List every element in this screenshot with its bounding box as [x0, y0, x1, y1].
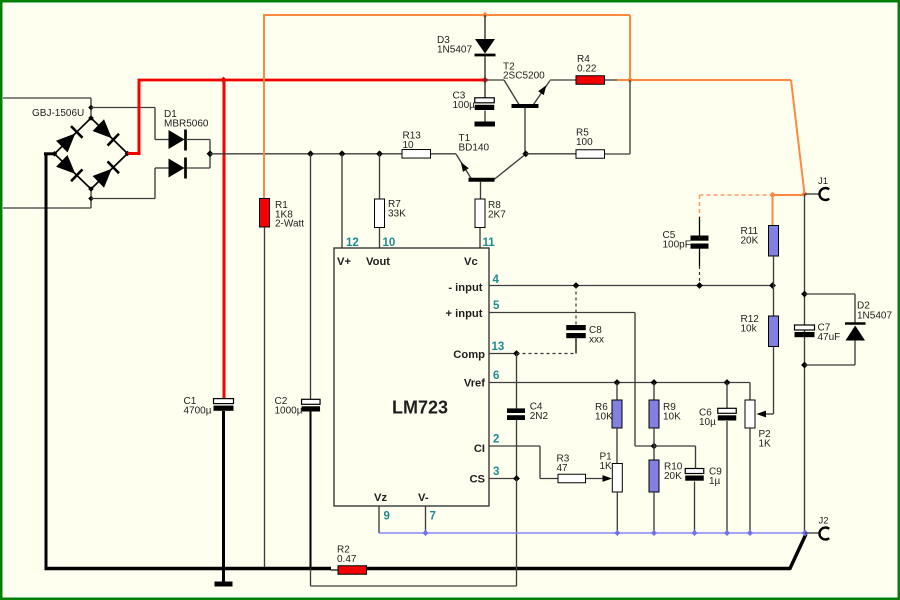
potentiometer P1 1K: [612, 464, 622, 493]
svg-text:Vout: Vout: [366, 256, 390, 268]
wire red positive rail from bridge: [128, 152, 140, 155]
potentiometer P2 1K: [749, 383, 751, 401]
wire thick diagonal to J2: [790, 534, 807, 570]
svg-text:33K: 33K: [388, 208, 406, 219]
wire R4 to orange output: [605, 79, 619, 81]
resistor R2 0.47: [338, 566, 367, 575]
node bridge left vertex: [52, 151, 58, 157]
node R11/R12 junction: [769, 282, 776, 289]
svg-text:2SC5200: 2SC5200: [503, 71, 545, 82]
capacitor C7 47uF: [795, 325, 815, 330]
svg-text:+ input: + input: [446, 308, 483, 320]
svg-text:13: 13: [492, 341, 505, 353]
IC U1 LM723 body: [334, 248, 489, 506]
connector J1: [805, 193, 820, 195]
svg-text:BD140: BD140: [459, 142, 490, 153]
svg-text:20K: 20K: [664, 471, 682, 482]
wire Comp down to C4: [516, 354, 518, 409]
node blue P2: [747, 530, 753, 536]
node CS junction: [513, 475, 520, 482]
wire to D1 lower anode: [91, 198, 155, 200]
svg-text:Vz: Vz: [374, 492, 387, 504]
svg-text:2K7: 2K7: [488, 209, 506, 220]
capacitor C8 xxx: [575, 286, 577, 326]
wire J1 column down to J2: [804, 194, 806, 533]
wire R12 to P2 wiper: [773, 347, 775, 415]
node blue C9: [692, 530, 698, 536]
node R9/R10 junction: [651, 443, 658, 450]
svg-text:0.47: 0.47: [337, 554, 357, 565]
node blue C6: [724, 530, 730, 536]
svg-text:11: 11: [483, 237, 496, 249]
svg-text:10: 10: [383, 237, 396, 249]
transistor T1 BD140: [456, 154, 472, 179]
wire orange loop top: [263, 14, 265, 199]
svg-text:xxx: xxx: [589, 334, 604, 345]
svg-text:1N5407: 1N5407: [857, 311, 892, 322]
svg-text:Vref: Vref: [464, 377, 485, 389]
wire R6 to P1: [616, 428, 618, 464]
capacitor C4 2N2: [507, 408, 525, 413]
node bridge top vertex: [88, 115, 94, 121]
svg-text:1000µ: 1000µ: [275, 405, 303, 416]
resistor R6 10K: [616, 383, 618, 401]
svg-text:9: 9: [384, 511, 390, 523]
node blue J2: [802, 530, 809, 537]
node bridge bottom vertex: [88, 186, 94, 192]
svg-text:1N5407: 1N5407: [437, 44, 472, 55]
node orange output corner: [627, 77, 633, 83]
node C2 column: [307, 150, 314, 157]
resistor R5 100: [526, 153, 576, 155]
wire pin12 stub: [341, 154, 343, 248]
node bridge AC1 branch: [88, 105, 94, 111]
wire AC input bottom-left: [3, 207, 91, 209]
svg-text:47: 47: [557, 463, 569, 474]
bridge rectifier GBJ-1506U: [55, 118, 92, 154]
svg-text:Comp: Comp: [453, 349, 485, 361]
node blue R10: [651, 530, 657, 536]
node red rail to C1: [220, 77, 227, 84]
svg-text:5: 5: [493, 300, 500, 312]
node bridge right vertex: [125, 151, 131, 157]
wire orange to J1: [630, 79, 791, 81]
resistor R3 47: [558, 474, 586, 483]
wire to C9: [654, 445, 696, 447]
capacitor C2 1000u: [302, 399, 321, 404]
wire C2 column upper: [310, 154, 312, 400]
svg-text:MBR5060: MBR5060: [164, 118, 209, 129]
svg-text:4: 4: [493, 274, 500, 286]
wire CS sense down: [516, 479, 518, 587]
svg-text:7: 7: [430, 511, 436, 523]
node orange top at D3: [482, 12, 488, 18]
svg-text:CI: CI: [474, 443, 485, 455]
svg-text:0.22: 0.22: [577, 63, 597, 74]
svg-text:V-: V-: [418, 492, 429, 504]
node pin12 column: [339, 150, 346, 157]
resistor R8 2K7: [475, 199, 485, 228]
wire pin 5 +input: [489, 312, 635, 314]
node C8 tap: [573, 282, 580, 289]
svg-text:100µ: 100µ: [453, 100, 476, 111]
resistor R11 20K: [769, 226, 779, 257]
resistor R12 10k: [773, 286, 775, 317]
node blue pin7: [423, 530, 429, 536]
svg-text:1µ: 1µ: [709, 476, 721, 487]
node D1 output: [207, 150, 214, 157]
svg-text:10K: 10K: [663, 411, 681, 422]
capacitor C1 4700u: [214, 399, 234, 404]
wire pin 9 stub: [378, 506, 380, 533]
wire R10 to V- rail: [653, 492, 655, 533]
svg-text:20K: 20K: [741, 235, 759, 246]
svg-text:12: 12: [346, 237, 359, 249]
svg-text:100pF: 100pF: [663, 239, 691, 250]
resistor R10 20K: [653, 446, 655, 460]
diode D3 1N5407: [484, 15, 486, 39]
ground C3: [475, 122, 496, 127]
node R9 top: [651, 379, 658, 386]
node T1/T2 collector junction: [522, 150, 529, 157]
capacitor C5 100pF: [699, 217, 701, 236]
svg-text:GBJ-1506U: GBJ-1506U: [32, 108, 84, 119]
node red rail at D3/T2: [482, 77, 489, 84]
resistor R4 0.22: [576, 76, 605, 85]
transistor T2 2SC5200: [485, 79, 504, 81]
wire pin 6 Vref: [489, 382, 750, 384]
wire orange dashed to C5: [700, 194, 771, 196]
wire pin 7 stub: [425, 506, 427, 533]
node bridge AC2 branch: [88, 196, 94, 202]
resistor R9 10K: [653, 383, 655, 401]
wire D1 cathode join: [209, 140, 211, 169]
svg-text:10µ: 10µ: [699, 417, 716, 428]
connector J2: [805, 532, 819, 534]
diode D1 MBR5060 (dual): [169, 130, 185, 149]
node R7 column: [376, 150, 383, 157]
node orange R11 top: [769, 192, 775, 198]
node blue P1: [614, 530, 620, 536]
svg-text:10: 10: [403, 140, 415, 151]
resistor R13 10: [402, 150, 431, 159]
node orange at J1: [801, 191, 807, 197]
svg-text:6: 6: [493, 370, 499, 382]
wire Comp dashed to C8: [517, 353, 577, 355]
wire R1 down to ground rail: [264, 227, 266, 567]
wire AC input top-left: [3, 97, 91, 99]
capacitor C6 10u: [726, 383, 728, 409]
svg-text:LM723: LM723: [392, 398, 448, 418]
svg-text:- input: - input: [448, 282, 482, 294]
wire to D1 upper anode: [91, 107, 155, 109]
wire pin 2 CI: [489, 445, 540, 447]
svg-text:47uF: 47uF: [818, 332, 841, 343]
node C7 top tap: [801, 291, 808, 298]
capacitor C3 100u: [484, 80, 486, 98]
wire V- blue rail: [379, 532, 805, 534]
node C6 top: [724, 379, 731, 386]
svg-text:CS: CS: [469, 473, 485, 485]
svg-text:J2: J2: [819, 516, 829, 527]
svg-text:Vc: Vc: [464, 256, 478, 268]
svg-text:100: 100: [576, 137, 593, 148]
ground C1: [215, 582, 233, 587]
svg-text:2-Watt: 2-Watt: [275, 219, 304, 230]
resistor R7 33K: [379, 154, 381, 199]
svg-text:2: 2: [493, 434, 499, 446]
svg-text:V+: V+: [337, 256, 351, 268]
wire main node horizontal: [210, 153, 402, 155]
svg-text:10K: 10K: [595, 411, 613, 422]
svg-text:3: 3: [493, 466, 499, 478]
wire pin 3 CS: [489, 478, 517, 480]
node C7 bottom tap: [801, 362, 808, 369]
svg-text:4700µ: 4700µ: [184, 405, 212, 416]
wire R3 to P1 wiper: [586, 478, 605, 480]
wire orange to R11: [773, 194, 806, 196]
wire pin 13 Comp: [489, 353, 517, 355]
svg-text:2N2: 2N2: [530, 411, 549, 422]
svg-text:10k: 10k: [741, 323, 758, 334]
wire C2 down: [310, 411, 312, 569]
capacitor C9 1u: [685, 469, 704, 474]
svg-text:1K: 1K: [759, 438, 772, 449]
wire thick ground bottom: [45, 567, 332, 570]
node C5 tap: [696, 282, 703, 289]
diode D2 1N5407: [805, 293, 856, 295]
wire red down to C1: [223, 80, 226, 398]
svg-text:J1: J1: [818, 176, 828, 187]
node Comp junction: [513, 350, 520, 357]
wire C1 to ground: [222, 411, 225, 582]
resistor R1 1K8 2-Watt: [260, 199, 270, 228]
wire pin 4 -input: [489, 285, 773, 287]
wire thick negative rail from bridge: [44, 152, 55, 155]
svg-text:1K: 1K: [600, 461, 613, 472]
node R6 top: [614, 379, 621, 386]
